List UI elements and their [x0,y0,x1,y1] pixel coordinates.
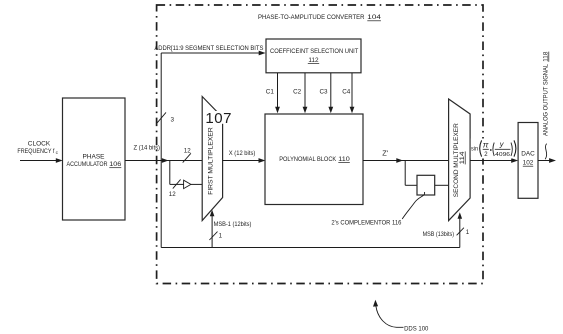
svg-text:C4: C4 [342,89,351,96]
label: sin(pi/2 (y/4096)) expression [471,140,516,158]
svg-text:2's COMPLEMENTOR 116: 2's COMPLEMENTOR 116 [331,219,402,226]
svg-text:114: 114 [459,151,466,165]
wire: DAC analog output arrow [538,158,556,163]
svg-text:PHASE-TO-AMPLITUDE CONVERTER: PHASE-TO-AMPLITUDE CONVERTER [258,14,365,21]
svg-text:MSB (13bits): MSB (13bits) [423,231,455,238]
svg-text:Z (14 bits): Z (14 bits) [134,145,161,152]
wire: Z from phase accumulator to first multiplexer [125,158,202,163]
bus slash and label 12 on Z wire into first multiplexer [183,147,192,162]
svg-text:X (12 bits): X (12 bits) [229,150,256,157]
svg-text:CLOCK: CLOCK [28,140,51,147]
svg-text:FIRST MULTIPLEXER: FIRST MULTIPLEXER [207,127,214,195]
wire: bottom feedback bus [161,247,460,249]
leader arrow to DDS 100 label [373,300,404,328]
svg-text:3: 3 [171,116,175,123]
block: 2's complementor 116 (small box) [417,175,435,195]
svg-text:1: 1 [466,229,470,236]
label: 107 (hand reference numeral) [205,110,232,127]
svg-text:Z': Z' [382,148,389,157]
svg-text:C3: C3 [320,89,329,96]
wire: Z' from polynomial block to second multiplexer [363,158,449,163]
svg-text:π: π [483,140,489,150]
svg-text:118: 118 [542,51,549,62]
wire: MSB-1 feedback up into first multiplexer [210,210,215,248]
label: PHASE-TO-AMPLITUDE CONVERTER 104 [258,14,381,21]
wire: MSB feedback up into second multiplexer [458,212,463,247]
svg-text:DAC: DAC [521,150,535,157]
svg-text:sin: sin [471,146,478,152]
wire: branch down into 2's complementor [405,161,448,186]
bus slash and label 12 on lower branch [169,179,181,198]
svg-text:ANALOG OUTPUT SIGNAL: ANALOG OUTPUT SIGNAL [542,63,549,136]
block: DAC 102 [518,123,538,199]
labels: C1 C2 C3 C4 [266,89,351,96]
wire: vertical branch at node (ADDR up / MSB feedback down) [160,53,162,248]
svg-text:POLYNOMIAL BLOCK: POLYNOMIAL BLOCK [279,156,337,163]
svg-text:DDS 100: DDS 100 [404,325,429,332]
wire: lower branch through buffer into first multiplexer [170,161,202,185]
svg-text:106: 106 [109,161,121,168]
svg-text:12: 12 [184,147,191,154]
bus slash and label 3 on ADDR branch [157,112,174,123]
svg-text:C1: C1 [266,89,275,96]
second multiplexer (trapezoid) [449,99,471,221]
block: polynomial block 110 [265,114,363,205]
dash-dot boundary of phase-to-amplitude converter 104 [157,5,483,284]
block: phase accumulator 106 [63,98,126,220]
svg-text:ACCUMULATOR: ACCUMULATOR [67,161,108,168]
white backing for sine expression over boundary [471,139,518,159]
svg-text:112: 112 [308,57,319,64]
svg-text:1: 1 [219,233,223,240]
block: coefficient selection unit 112 [266,39,361,73]
svg-text:COEFFICEINT SELECTION UNIT: COEFFICEINT SELECTION UNIT [270,48,358,55]
buffer triangle on lower branch [184,180,191,188]
svg-text:PHASE: PHASE [82,154,105,161]
svg-text:107: 107 [205,110,232,127]
svg-text:MSB-1 (12bits): MSB-1 (12bits) [214,221,252,228]
svg-text:102: 102 [523,160,534,167]
svg-text:4096: 4096 [495,152,510,158]
label: clock frequency fc [17,140,58,156]
svg-text:ADDR[11:9 SEGMENT SELECTION BI: ADDR[11:9 SEGMENT SELECTION BITS [154,45,263,52]
svg-text:104: 104 [367,14,381,21]
wire: X (12 bits) from first multiplexer to polynomial block [223,158,266,163]
wire: second multiplexer output to DAC [470,158,518,163]
leader from label 116 to the 2's complementor box [402,192,424,219]
label: ANALOG OUTPUT SIGNAL 118 (vertical) [542,51,549,136]
wire: ADDR segment selection bits into coefficient selection unit [161,51,265,56]
svg-text:110: 110 [338,156,350,163]
svg-text:12: 12 [169,191,176,198]
wire: clock input arrow into phase accumulator [20,158,63,163]
bus slash and label 1 on MSB wire [457,228,470,236]
wires: C1-C4 coefficient arrows into polynomial block [278,73,353,108]
squiggle (analog) symbol on output wire [545,144,546,160]
bus slash and label 1 on MSB-1 wire [209,232,222,240]
svg-text:C2: C2 [293,89,302,96]
svg-text:FREQUENCY f: FREQUENCY f [17,148,54,155]
first multiplexer (trapezoid) [202,97,222,221]
